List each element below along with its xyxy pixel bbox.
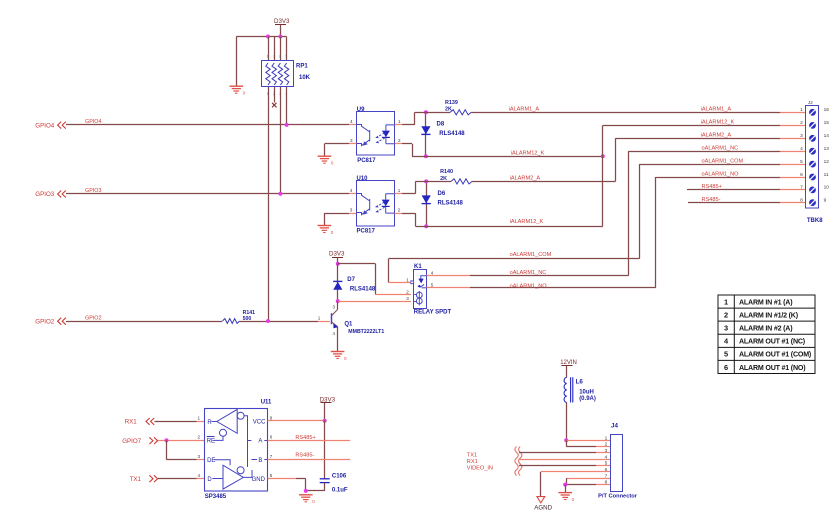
wire GPIO7 to DE [166, 440, 168, 459]
svg-text:1: 1 [398, 188, 401, 193]
svg-text:GPIO2: GPIO2 [35, 318, 54, 325]
svg-text:1: 1 [406, 278, 409, 283]
svg-text:6: 6 [724, 363, 728, 372]
svg-text:MMBT2222LT1: MMBT2222LT1 [348, 329, 384, 335]
diode D6 RLS4148 [426, 181, 428, 226]
wire R141 to Q1 base [240, 321, 318, 323]
wire top bus [236, 36, 286, 38]
wire to J4 pin2 [566, 440, 568, 446]
junction GPIO2-RP1 [266, 319, 270, 323]
svg-text:11: 11 [824, 172, 829, 178]
svg-text:5: 5 [285, 55, 287, 59]
svg-text:U11: U11 [261, 400, 272, 406]
svg-text:16: 16 [824, 107, 830, 113]
transistor Q1 MMBT2222LT1 [337, 301, 339, 309]
wire RP1 pin2 stub [274, 87, 276, 103]
junction GPIO7 [165, 438, 169, 442]
wire D3V3 to bus [280, 25, 282, 37]
svg-text:D3V3: D3V3 [329, 250, 345, 257]
svg-text:5: 5 [724, 350, 728, 359]
pin stub U9.2 [395, 143, 402, 145]
svg-text:2K: 2K [445, 107, 452, 113]
junction D7 top [336, 262, 340, 266]
terminal circle pin 4 [809, 148, 816, 155]
wire relay pin4 NC [427, 275, 471, 277]
svg-text:VIDEO_IN: VIDEO_IN [467, 465, 493, 471]
junction D7 bottom [336, 299, 340, 303]
wire J4 pin5 VIDEO_IN [519, 465, 596, 467]
wire RP1 pin4 down to GPIO4 net [286, 87, 288, 125]
ground 0 (U10) [318, 225, 332, 227]
wire J4 pin3 TX1 [519, 452, 596, 454]
wire RS485+ stub [687, 189, 780, 191]
pin stub U10.1 [395, 193, 403, 195]
svg-text:1: 1 [398, 119, 401, 124]
svg-text:12: 12 [824, 159, 830, 165]
svg-text:2: 2 [398, 138, 401, 143]
svg-text:D7: D7 [347, 277, 355, 283]
wire U10 bottom line iALARM12_K [416, 226, 603, 228]
junction VCC [323, 419, 327, 423]
svg-text:RP1: RP1 [296, 64, 308, 70]
wire RS485+ from U11 [268, 440, 351, 442]
wire oALARM1_NO to pin6 [656, 177, 780, 179]
svg-text:4: 4 [350, 119, 353, 124]
svg-text:R139: R139 [445, 100, 458, 106]
inductor L6 [564, 377, 567, 402]
wire pin8 to ground [565, 485, 567, 493]
svg-text:2: 2 [724, 310, 728, 319]
wire oALARM1_NC riser [628, 151, 630, 276]
svg-text:iALARM1_A: iALARM1_A [509, 107, 540, 113]
svg-text:15: 15 [824, 120, 830, 126]
svg-text:B: B [258, 458, 262, 464]
wire D3V3 to VCC rail [324, 403, 326, 421]
optocoupler U10 [357, 181, 395, 227]
pin stub Q1 base [318, 321, 330, 323]
svg-text:9: 9 [824, 197, 827, 203]
wire U9 top line [415, 112, 451, 114]
svg-text:RS485+: RS485+ [295, 435, 315, 441]
pin stub U10.2 [395, 213, 403, 215]
terminal circle pin 8 [809, 199, 816, 206]
diode D8 RLS4148 [425, 112, 427, 156]
ground 0 (top-left) [230, 85, 244, 87]
wire GPIO3 [66, 193, 349, 195]
wire J4 pin6 AGND [541, 471, 596, 473]
svg-text:iALARM1_A: iALARM1_A [701, 107, 732, 113]
svg-text:4: 4 [800, 146, 803, 152]
ground 0 (Q1) [331, 351, 345, 353]
svg-text:D6: D6 [438, 191, 446, 197]
svg-text:oALARM1_COM: oALARM1_COM [510, 252, 552, 258]
svg-text:RS485-: RS485- [295, 452, 314, 458]
svg-text:3: 3 [350, 138, 353, 143]
svg-text:RX1: RX1 [125, 419, 138, 426]
svg-text:RS485+: RS485+ [702, 184, 722, 190]
wire U11 GND pin [268, 478, 296, 480]
svg-text:D3V3: D3V3 [274, 18, 290, 25]
svg-text:U9: U9 [357, 107, 365, 113]
svg-text:0: 0 [572, 497, 575, 502]
svg-text:D: D [207, 477, 212, 483]
junction J4 pin8 [563, 483, 567, 487]
wire relay pin5 NO [427, 287, 471, 289]
wire oALARM1_NC to pin4 [628, 151, 780, 153]
svg-text:1: 1 [605, 435, 608, 441]
wire U9 pin1 up [402, 124, 415, 126]
svg-text:8: 8 [270, 415, 273, 420]
wire J4 pin7 [566, 478, 610, 480]
wire iALARM2_A horizontal [472, 181, 616, 183]
svg-text:RLS4148: RLS4148 [350, 286, 376, 292]
wire U10 pin2 down [402, 213, 416, 215]
svg-text:DE: DE [207, 458, 215, 464]
svg-text:GPIO4: GPIO4 [35, 122, 54, 129]
svg-text:ALARM OUT #1 (NO): ALARM OUT #1 (NO) [739, 364, 806, 372]
wire oALARM1_COM riser [639, 164, 641, 259]
svg-text:oALARM1_NO: oALARM1_NO [702, 171, 740, 177]
svg-text:R140: R140 [440, 169, 453, 175]
svg-text:3: 3 [800, 133, 803, 139]
svg-text:7: 7 [800, 185, 803, 191]
diode D7 RLS4148 [337, 264, 339, 301]
svg-text:RS485-: RS485- [702, 197, 721, 203]
svg-text:2: 2 [800, 120, 803, 126]
svg-text:iALARM2_A: iALARM2_A [510, 176, 541, 182]
svg-text:SP3485: SP3485 [205, 494, 227, 500]
svg-text:iALARM12_K: iALARM12_K [510, 219, 544, 225]
svg-text:10: 10 [824, 185, 830, 191]
wire U9 pin3 to ground [349, 143, 356, 145]
svg-text:C106: C106 [332, 474, 347, 480]
svg-text:4: 4 [431, 270, 434, 275]
junction iALARM12_K riser [601, 154, 605, 158]
svg-text:TBK8: TBK8 [807, 218, 823, 224]
wire oALARM1_NO riser [655, 177, 657, 288]
svg-text:RE: RE [207, 439, 215, 445]
connector J4 [611, 435, 623, 492]
svg-text:iALARM12_K: iALARM12_K [701, 120, 735, 126]
wire RP1 top pins [268, 37, 270, 62]
wire iALARM1_A [471, 112, 780, 114]
svg-text:0: 0 [331, 230, 334, 235]
terminal circle pin 2 [809, 122, 816, 129]
svg-text:6: 6 [270, 435, 273, 440]
svg-text:ALARM IN #1 (A): ALARM IN #1 (A) [739, 298, 793, 306]
svg-text:L6: L6 [576, 378, 584, 385]
wire U9 pin2 down [402, 143, 412, 145]
svg-text:ALARM IN #1/2 (K): ALARM IN #1/2 (K) [739, 311, 799, 319]
svg-text:GND: GND [252, 477, 266, 483]
wire TX1 [158, 478, 197, 480]
svg-text:R: R [207, 420, 212, 426]
wire RS485- from U11 [268, 459, 351, 461]
terminal circle pin 6 [809, 174, 816, 181]
svg-text:GPIO3: GPIO3 [85, 188, 101, 194]
pin stub relay.2 [376, 294, 412, 296]
ground AGND triangle [537, 497, 545, 503]
wire RP1 pin1 down to GPIO2 net [268, 87, 270, 321]
wire RX1 [155, 421, 197, 423]
U11 driver triangle [223, 465, 243, 489]
wire iALARM2_A to pin3 [616, 138, 781, 140]
junction bus-D3V3 [278, 35, 282, 39]
svg-text:4: 4 [350, 188, 353, 193]
wire VCC rail down to C106 [324, 421, 326, 479]
svg-text:1: 1 [318, 316, 321, 321]
relay switch contact [421, 276, 427, 279]
wire iALARM2_A riser [615, 138, 617, 181]
svg-text:AGND: AGND [534, 504, 552, 511]
svg-text:14: 14 [824, 133, 830, 139]
pin stub U10.4 [349, 193, 356, 195]
table alarm legend [718, 295, 815, 374]
junction bus-left [266, 35, 270, 39]
wire GPIO7 [158, 440, 197, 442]
svg-text:0.1uF: 0.1uF [332, 488, 348, 494]
wire U9 bottom line iALARM12_K [412, 156, 603, 158]
wire bus to ground [236, 37, 238, 87]
wire RS485- stub [688, 202, 780, 204]
wire GPIO2 to R141 [66, 321, 222, 323]
wire iALARM12_K to pin2 [603, 125, 780, 127]
svg-text:GPIO3: GPIO3 [35, 191, 54, 198]
terminal circle pin 3 [809, 135, 816, 142]
svg-text:RLS4148: RLS4148 [439, 131, 465, 137]
svg-text:iALARM12_K: iALARM12_K [511, 151, 545, 157]
svg-text:GPIO2: GPIO2 [85, 315, 101, 321]
ground 0 (U11) [299, 494, 313, 496]
svg-text:RELAY SPDT: RELAY SPDT [414, 310, 452, 316]
svg-text:ALARM OUT #1 (NC): ALARM OUT #1 (NC) [739, 338, 806, 346]
svg-text:(0.9A): (0.9A) [579, 396, 596, 402]
junction GND [304, 489, 308, 493]
squiggle arrows [515, 447, 518, 476]
svg-text:1: 1 [724, 297, 728, 306]
pin stub U9.1 [395, 124, 402, 126]
svg-text:2: 2 [198, 435, 201, 440]
svg-text:10uH: 10uH [579, 389, 594, 395]
wire 12VIN to L6 [566, 366, 568, 378]
svg-text:0: 0 [331, 161, 334, 166]
wire GPIO4 [66, 124, 349, 126]
relay pin1 open square [411, 281, 414, 284]
svg-text:3: 3 [724, 324, 728, 333]
svg-text:6: 6 [279, 55, 281, 59]
svg-text:6: 6 [800, 172, 803, 178]
svg-text:iALARM2_A: iALARM2_A [701, 133, 732, 139]
svg-text:2: 2 [605, 442, 608, 448]
svg-text:VCC: VCC [253, 419, 266, 425]
svg-text:3: 3 [350, 207, 353, 212]
wire oALARM1_COM to pin5 [639, 164, 780, 166]
svg-text:0: 0 [243, 91, 246, 96]
svg-text:0: 0 [344, 356, 347, 361]
svg-text:oALARM1_NC: oALARM1_NC [510, 270, 547, 276]
svg-text:ALARM IN #2 (A): ALARM IN #2 (A) [739, 325, 793, 333]
no-connect X [272, 103, 277, 108]
optocoupler U9 [357, 112, 395, 156]
svg-text:0: 0 [312, 499, 315, 504]
svg-text:2K: 2K [440, 176, 447, 182]
wire relay pin1 COM [389, 282, 411, 284]
junction GPIO4-RP1 [285, 123, 289, 127]
terminal circle pin 1 [809, 109, 816, 116]
capacitor C106 [320, 478, 330, 480]
svg-text:oALARM1_NC: oALARM1_NC [702, 146, 739, 152]
svg-text:TX1: TX1 [467, 452, 477, 458]
relay K1 RELAY SPDT [414, 270, 427, 309]
svg-text:8: 8 [267, 55, 269, 59]
svg-text:13: 13 [824, 146, 830, 152]
wire to relay pin3 [338, 301, 411, 303]
svg-text:D8: D8 [437, 121, 445, 127]
svg-text:2: 2 [406, 289, 409, 294]
junction D6 bottom [424, 224, 428, 228]
svg-text:ALARM OUT #1 (COM): ALARM OUT #1 (COM) [739, 351, 812, 359]
junction J4 pin1 [564, 438, 568, 442]
wire iALARM12_K riser [602, 125, 604, 226]
svg-text:RLS4148: RLS4148 [438, 201, 464, 207]
terminal circle pin 7 [809, 187, 816, 194]
svg-text:PC817: PC817 [357, 229, 376, 235]
svg-text:3: 3 [406, 296, 409, 301]
wire D3V3 to relay pin2 [338, 263, 376, 265]
svg-text:P/T Connector: P/T Connector [598, 494, 638, 500]
wire U10 pin1 up [402, 193, 416, 195]
wire J4 pin8 [565, 484, 596, 486]
svg-text:1: 1 [198, 415, 201, 420]
svg-text:5: 5 [270, 473, 273, 478]
relay coil [416, 292, 422, 298]
resistor pack RP1 [262, 61, 294, 87]
svg-text:U10: U10 [357, 176, 369, 182]
svg-text:7: 7 [273, 55, 275, 59]
junction GPIO3-RP1 [278, 192, 282, 196]
resistor R141 [222, 319, 239, 324]
wire L6 to J4 pin1 [566, 403, 568, 441]
svg-text:GPIO4: GPIO4 [85, 119, 101, 125]
svg-text:RX1: RX1 [467, 459, 478, 465]
ground 0 (U9) [318, 155, 332, 157]
wire RP1 pin3 down to GPIO3 net [280, 87, 282, 194]
svg-text:2: 2 [398, 207, 401, 212]
svg-text:A: A [258, 439, 262, 445]
wire C106 to ground rail [324, 483, 326, 491]
wire U10 pin3 to ground [349, 213, 356, 215]
svg-text:5: 5 [431, 283, 434, 288]
resistor R140 [451, 179, 472, 184]
ground 0 (J4) [558, 492, 572, 494]
wire U10 top line [416, 181, 452, 183]
resistor R139 [450, 110, 471, 115]
svg-text:3: 3 [198, 454, 201, 459]
terminal circle pin 5 [809, 161, 816, 168]
svg-text:1: 1 [800, 107, 803, 113]
svg-text:GPIO7: GPIO7 [122, 438, 141, 445]
pin stub U9.4 [349, 124, 356, 126]
junction D8 bottom [424, 154, 428, 158]
svg-text:8: 8 [800, 197, 803, 203]
ic U11 SP3485 [205, 409, 268, 492]
U11 internal wiring [212, 421, 217, 423]
svg-text:oALARM1_COM: oALARM1_COM [702, 158, 744, 164]
svg-text:oALARM1_NO: oALARM1_NO [510, 284, 548, 290]
svg-text:J2: J2 [808, 100, 813, 105]
junction D6 top [424, 179, 428, 183]
svg-text:TX1: TX1 [130, 476, 142, 483]
svg-text:5: 5 [800, 159, 803, 165]
svg-text:10K: 10K [299, 75, 311, 81]
svg-text:PC817: PC817 [357, 158, 376, 164]
svg-text:7: 7 [270, 454, 273, 459]
wire J4 pin4 RX1 [519, 459, 596, 461]
wire to J4 pin1 [566, 440, 610, 442]
wire VCC [268, 420, 296, 422]
connector J2 TBK8 [806, 106, 819, 209]
svg-text:4: 4 [198, 473, 201, 478]
svg-text:J4: J4 [611, 423, 618, 430]
svg-text:K1: K1 [414, 264, 422, 270]
junction D8 top [424, 110, 428, 114]
svg-text:Q1: Q1 [344, 321, 353, 327]
